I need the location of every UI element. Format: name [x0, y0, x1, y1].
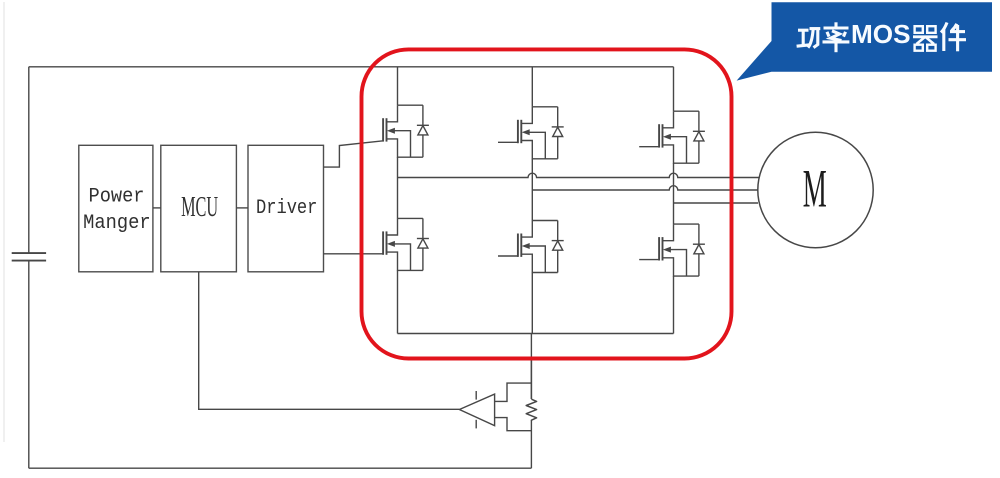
body diode of Q2 (phase A low-side): [417, 218, 429, 270]
wire: phase A mid vertical: [397, 157, 399, 218]
block: Power Manger box: [79, 145, 153, 271]
wire: phase A low vertical: [397, 270, 399, 333]
svg-text:MOS: MOS: [851, 21, 911, 49]
body diode of Q3 (phase B high-side): [552, 107, 564, 159]
wire: Driver upper gate drive to Q1: [324, 141, 384, 167]
svg-text:Manger: Manger: [83, 212, 151, 235]
op-amp U1 (current sense amplifier): [459, 391, 494, 428]
wire: phase A top vertical: [397, 67, 399, 105]
svg-text:Power: Power: [89, 186, 145, 209]
transistor Q2 (phase A low-side): [383, 218, 423, 270]
block: Driver box: [248, 145, 324, 271]
wire: bridge bottom rail: [398, 333, 674, 335]
transistor Q1 (phase A high-side): [383, 105, 423, 157]
highlight ring around power MOS bridge: [362, 49, 732, 358]
wire: phase B mid vertical: [531, 159, 533, 221]
wire: phase C low vertical: [673, 276, 675, 333]
wire: Driver lower gate drive to Q2: [324, 253, 384, 255]
wire: phase C output to motor: [674, 202, 759, 204]
callout balloon (blue): [737, 2, 992, 80]
wire: left bus below capacitor: [28, 261, 30, 469]
wire: return rail up to shunt resistor: [530, 421, 532, 468]
wire: phase A output to motor (hops over B and C legs): [398, 173, 760, 177]
wire: phase C mid vertical: [673, 163, 675, 224]
wire: shunt upper tap to amplifier inverting input: [495, 383, 532, 401]
wire: MCU to Driver: [236, 207, 248, 209]
transistor Q4 (phase B low-side): [518, 221, 558, 273]
body diode of Q1 (phase A high-side): [417, 105, 429, 157]
wire: phase B output to motor (hops over C leg): [532, 186, 759, 190]
motor M1: [758, 132, 873, 247]
transistor Q6 (phase C low-side): [659, 224, 699, 276]
wire: phase B top vertical: [531, 67, 533, 107]
block: MCU box: [161, 145, 237, 271]
wire: left bus down to capacitor: [28, 67, 30, 253]
wire: shunt lower tap to amplifier non-inverting input: [495, 418, 532, 431]
gate stub of Q5 (phase C high-side): [639, 146, 659, 148]
wire: phase B low vertical: [531, 273, 533, 334]
wire: phase C top vertical: [673, 67, 675, 111]
wire: Power Manger to MCU: [153, 207, 161, 209]
body diode of Q5 (phase C high-side): [693, 111, 705, 163]
wire: bottom return rail: [29, 467, 532, 469]
body diode of Q4 (phase B low-side): [552, 221, 564, 273]
callout text 功率MOS器件: [797, 22, 850, 52]
svg-text:Driver: Driver: [256, 197, 318, 220]
transistor Q5 (phase C high-side): [659, 111, 699, 163]
faint page edge line: [3, 2, 5, 442]
wire: DC bus top rail: [29, 66, 674, 68]
gate stub of Q3 (phase B high-side): [498, 141, 518, 143]
capacitor C1 (bus capacitor): [12, 253, 46, 261]
gate stub of Q4 (phase B low-side): [498, 255, 518, 257]
gate stub of Q6 (phase C low-side): [639, 259, 659, 261]
wire: bridge bottom rail to shunt resistor: [530, 334, 533, 400]
svg-text:M: M: [803, 159, 827, 219]
svg-text:MCU: MCU: [181, 191, 218, 223]
wire: MCU to current-sense amplifier: [199, 272, 460, 410]
body diode of Q6 (phase C low-side): [693, 224, 705, 276]
resistor R1 (shunt): [526, 399, 536, 421]
transistor Q3 (phase B high-side): [518, 107, 558, 159]
